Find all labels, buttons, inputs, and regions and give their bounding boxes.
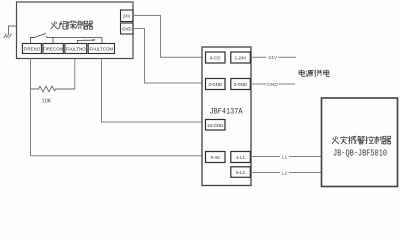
svg-text:FIRECOM: FIRECOM xyxy=(43,46,64,51)
wire GND to 3-GND row xyxy=(133,29,202,84)
wire L1 xyxy=(250,156,321,158)
svg-text:24V: 24V xyxy=(268,55,277,61)
wire FAULTNO to resistor xyxy=(74,59,76,89)
wire GND supply xyxy=(250,83,295,85)
svg-text:GND: GND xyxy=(122,26,132,31)
svg-text:4-L1: 4-L1 xyxy=(236,155,245,160)
resistor R1 10K xyxy=(31,86,75,92)
svg-text:3-GND: 3-GND xyxy=(234,82,248,87)
wire FAULTCOM stub xyxy=(101,37,103,43)
terminal 8-CO xyxy=(206,52,226,63)
ground xyxy=(4,26,17,38)
svg-text:L2: L2 xyxy=(282,170,288,176)
terminal 24V xyxy=(121,10,134,22)
svg-text:FIRENO: FIRENO xyxy=(24,46,41,51)
terminal FAULTCOM xyxy=(88,44,114,54)
terminal FIRECOM xyxy=(43,44,64,54)
switch S2 fault contact with arrow xyxy=(77,40,93,44)
terminal 1-24V xyxy=(231,52,251,63)
svg-text:8-CO: 8-CO xyxy=(210,56,221,61)
svg-text:10-GND: 10-GND xyxy=(207,123,223,128)
module box JBF4137A xyxy=(202,47,251,186)
terminal 3-GND left xyxy=(206,79,226,90)
wire contact common line xyxy=(47,36,103,38)
svg-text:JBF4137A: JBF4137A xyxy=(210,107,244,117)
wire FIRENO to 9-4S xyxy=(31,59,203,156)
terminal GND xyxy=(121,23,134,34)
wire FIRECOM stub xyxy=(52,37,54,43)
svg-text:JB-QB-JBF5010: JB-QB-JBF5010 xyxy=(333,149,387,159)
terminal FIRENO xyxy=(22,44,41,54)
wire 24V supply xyxy=(250,56,296,58)
svg-text:24V: 24V xyxy=(123,14,131,19)
label 火灾报警控制器 xyxy=(332,136,391,144)
title 火焰探测器 xyxy=(51,21,93,29)
svg-text:10K: 10K xyxy=(42,99,52,105)
terminal 10-GND xyxy=(206,120,226,131)
svg-text:FAULTNO: FAULTNO xyxy=(66,46,87,51)
terminal 5-L2 xyxy=(231,167,251,178)
wire FAULTCOM to 10-GND xyxy=(102,59,203,122)
svg-text:9-4S: 9-4S xyxy=(211,155,220,160)
terminal 3-GND right xyxy=(231,79,251,90)
controller box JB-QB-JBF5010 xyxy=(322,98,398,187)
svg-text:L1: L1 xyxy=(282,154,288,160)
svg-text:5-L2: 5-L2 xyxy=(236,170,245,175)
svg-text:1-24V: 1-24V xyxy=(235,56,247,61)
wire L2 xyxy=(250,172,321,174)
svg-text:3-GND: 3-GND xyxy=(208,82,222,87)
terminal FAULTNO xyxy=(65,44,87,54)
svg-text:GND: GND xyxy=(267,82,278,88)
switch S1 fire contact xyxy=(31,33,47,43)
terminal 4-L1 xyxy=(231,152,251,163)
wire 24V to 8-CO row xyxy=(133,16,202,58)
terminal 9-4S xyxy=(206,152,226,163)
label 电源供电 xyxy=(299,70,329,78)
flame detector box 火焰探测器 xyxy=(17,2,134,59)
svg-text:FAULTCOM: FAULTCOM xyxy=(90,46,114,51)
